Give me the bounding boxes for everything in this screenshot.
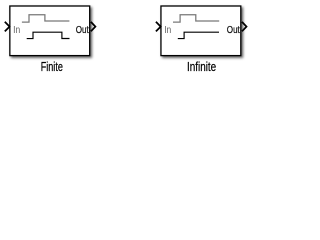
svg-text:In: In bbox=[13, 25, 20, 36]
input port chevron (Infinite) bbox=[156, 22, 161, 32]
svg-text:Finite: Finite bbox=[41, 60, 63, 74]
icon: black step waveform (Infinite) bbox=[178, 32, 219, 38]
output port chevron (Infinite) bbox=[242, 22, 247, 31]
svg-text:Infinite: Infinite bbox=[187, 60, 216, 74]
block Infinite (subsystem body) bbox=[161, 6, 241, 56]
icon: black pulse waveform (Finite) bbox=[27, 32, 70, 38]
block Finite (subsystem body) bbox=[10, 6, 90, 56]
icon: gray pulse waveform (Infinite) bbox=[173, 15, 219, 22]
output port chevron (Finite) bbox=[91, 22, 96, 31]
svg-text:In: In bbox=[164, 25, 171, 36]
input port chevron (Finite) bbox=[5, 22, 10, 32]
svg-text:Out: Out bbox=[76, 25, 89, 36]
icon: gray pulse waveform (Finite) bbox=[22, 15, 70, 22]
svg-text:Out: Out bbox=[227, 25, 240, 36]
